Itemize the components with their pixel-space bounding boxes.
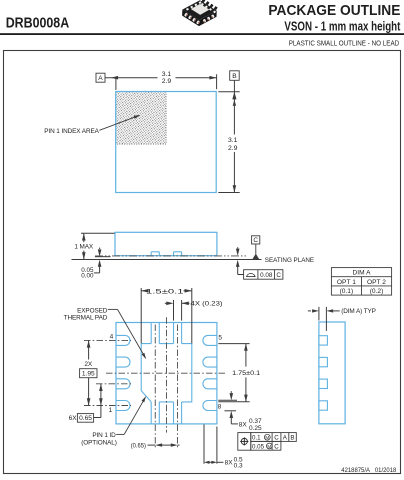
svg-text:M: M: [265, 435, 269, 440]
datum B box: [230, 71, 240, 81]
svg-text:B: B: [232, 73, 237, 80]
pin 1 id label: [81, 396, 146, 447]
pin 1 index stipple area: [116, 92, 166, 145]
dim 3.1/2.9 vertical (right): [218, 80, 239, 192]
pin number 5: [218, 334, 222, 341]
feature control frame 0.08 C: [244, 270, 283, 280]
svg-text:DIM A: DIM A: [353, 270, 372, 277]
svg-text:1.75±0.1: 1.75±0.1: [232, 370, 260, 377]
pad centerline extensions left: [84, 340, 131, 405]
svg-text:SEATING PLANE: SEATING PLANE: [265, 257, 314, 264]
pin number 1: [109, 407, 113, 414]
pin number 8: [218, 404, 222, 411]
svg-text:4: 4: [110, 334, 114, 341]
thermal pad tie bar tabs top: [151, 323, 181, 344]
position tolerance feature control frame: [238, 433, 296, 451]
dim (DIM A) TYP: [308, 307, 376, 331]
svg-text:8X: 8X: [225, 460, 234, 467]
svg-text:(DIM A) TYP: (DIM A) TYP: [341, 308, 376, 315]
svg-text:PACKAGE OUTLINE: PACKAGE OUTLINE: [268, 2, 400, 19]
svg-text:PIN 1 ID: PIN 1 ID: [92, 432, 116, 439]
svg-text:(0.1): (0.1): [340, 288, 354, 295]
dim 2X 1.95 pin span: [80, 340, 97, 405]
svg-text:2X: 2X: [84, 361, 93, 368]
thermal pad tie bar tabs bottom: [151, 402, 181, 424]
datum A box: [96, 73, 105, 82]
exposed thermal pad label: [64, 307, 147, 359]
svg-text:1.95: 1.95: [82, 371, 95, 378]
svg-text:3.1: 3.1: [162, 71, 172, 78]
header subtitle: [289, 38, 400, 47]
terminal detail view body: [319, 322, 345, 424]
svg-text:THERMAL PAD: THERMAL PAD: [64, 314, 108, 321]
svg-text:0.25: 0.25: [249, 425, 262, 432]
svg-text:1 MAX: 1 MAX: [74, 244, 94, 251]
svg-text:A: A: [283, 435, 288, 442]
exposed thermal pad outline with pin1 chamfer: [141, 344, 192, 402]
svg-text:OPT 1: OPT 1: [337, 279, 356, 286]
dim 0.05/0.00 standoff: [81, 248, 110, 280]
dim 1.5±0.1 thermal pad width: [141, 288, 192, 343]
svg-text:OPT 2: OPT 2: [367, 279, 386, 286]
svg-text:0.08: 0.08: [260, 272, 273, 279]
dim 8X 0.5/0.3 pad length: [204, 425, 243, 470]
svg-text:(OPTIONAL): (OPTIONAL): [81, 440, 117, 447]
svg-text:PIN 1 INDEX AREA: PIN 1 INDEX AREA: [44, 128, 99, 135]
terminal pads right (pins 5-8): [203, 335, 217, 410]
svg-text:0.3: 0.3: [234, 463, 243, 470]
terminal pads left (pins 1-4): [116, 335, 130, 410]
svg-text:(0.2): (0.2): [370, 288, 384, 295]
package centerlines: [106, 317, 225, 432]
top view package body: [116, 92, 217, 193]
svg-text:1: 1: [109, 407, 113, 414]
svg-text:0.1: 0.1: [252, 435, 261, 442]
svg-text:3.1: 3.1: [228, 137, 238, 144]
pin number 4: [110, 334, 114, 341]
svg-text:C: C: [274, 444, 279, 451]
seating plane line: [72, 259, 262, 261]
svg-text:(0.65): (0.65): [131, 443, 146, 450]
svg-text:2.9: 2.9: [228, 145, 238, 152]
svg-text:0.65: 0.65: [79, 415, 92, 422]
svg-text:6X: 6X: [69, 415, 78, 422]
svg-text:5: 5: [218, 334, 222, 341]
dim 8X 0.37/0.25 pad width: [218, 391, 262, 432]
bottom view package body: [116, 323, 217, 424]
svg-text:0.05: 0.05: [252, 444, 265, 451]
tolerance 0.08 C leader arrows: [236, 247, 244, 274]
svg-text:1.5±0.1: 1.5±0.1: [146, 288, 184, 295]
dim 1 MAX: [74, 233, 114, 259]
svg-text:4X (0.23): 4X (0.23): [191, 301, 223, 308]
svg-text:C: C: [253, 237, 258, 244]
header rule: [0, 33, 404, 35]
svg-text:8: 8: [218, 404, 222, 411]
title DRB0008A: [6, 16, 70, 32]
pin 1 index area label: [44, 115, 140, 135]
svg-text:C: C: [276, 272, 281, 279]
header right titles: [268, 2, 401, 34]
svg-text:VSON - 1 mm max height: VSON - 1 mm max height: [284, 20, 401, 34]
svg-text:C: C: [274, 435, 279, 442]
side view package body: [115, 232, 217, 255]
svg-text:8X: 8X: [239, 422, 248, 429]
dim 4X (0.23) tab width: [165, 300, 223, 321]
DIM A table: [331, 268, 391, 296]
svg-text:B: B: [290, 435, 294, 442]
lead plane dash-dot line: [95, 255, 248, 257]
footer document number: [341, 467, 396, 474]
svg-text:A: A: [98, 75, 103, 82]
dim 1.75±0.1 thermal pad length: [218, 344, 260, 402]
svg-text:PLASTIC SMALL OUTLINE - NO LEA: PLASTIC SMALL OUTLINE - NO LEAD: [289, 38, 400, 47]
svg-text:2.9: 2.9: [162, 78, 172, 85]
datum C box and seating plane callout: [252, 236, 314, 264]
tab centerlines dash-dot: [155, 325, 177, 449]
svg-text:0.00: 0.00: [81, 273, 94, 280]
svg-text:DRB0008A: DRB0008A: [6, 16, 70, 32]
svg-text:4218875/A 01/2018: 4218875/A 01/2018: [341, 467, 396, 474]
svg-text:M: M: [267, 444, 271, 449]
package 3D icon: [182, 0, 218, 27]
dim 3.1/2.9 horizontal (top): [105, 71, 217, 90]
dim 6X 0.65 pitch: [69, 384, 103, 422]
dim (0.65) tab pitch: [131, 443, 180, 450]
